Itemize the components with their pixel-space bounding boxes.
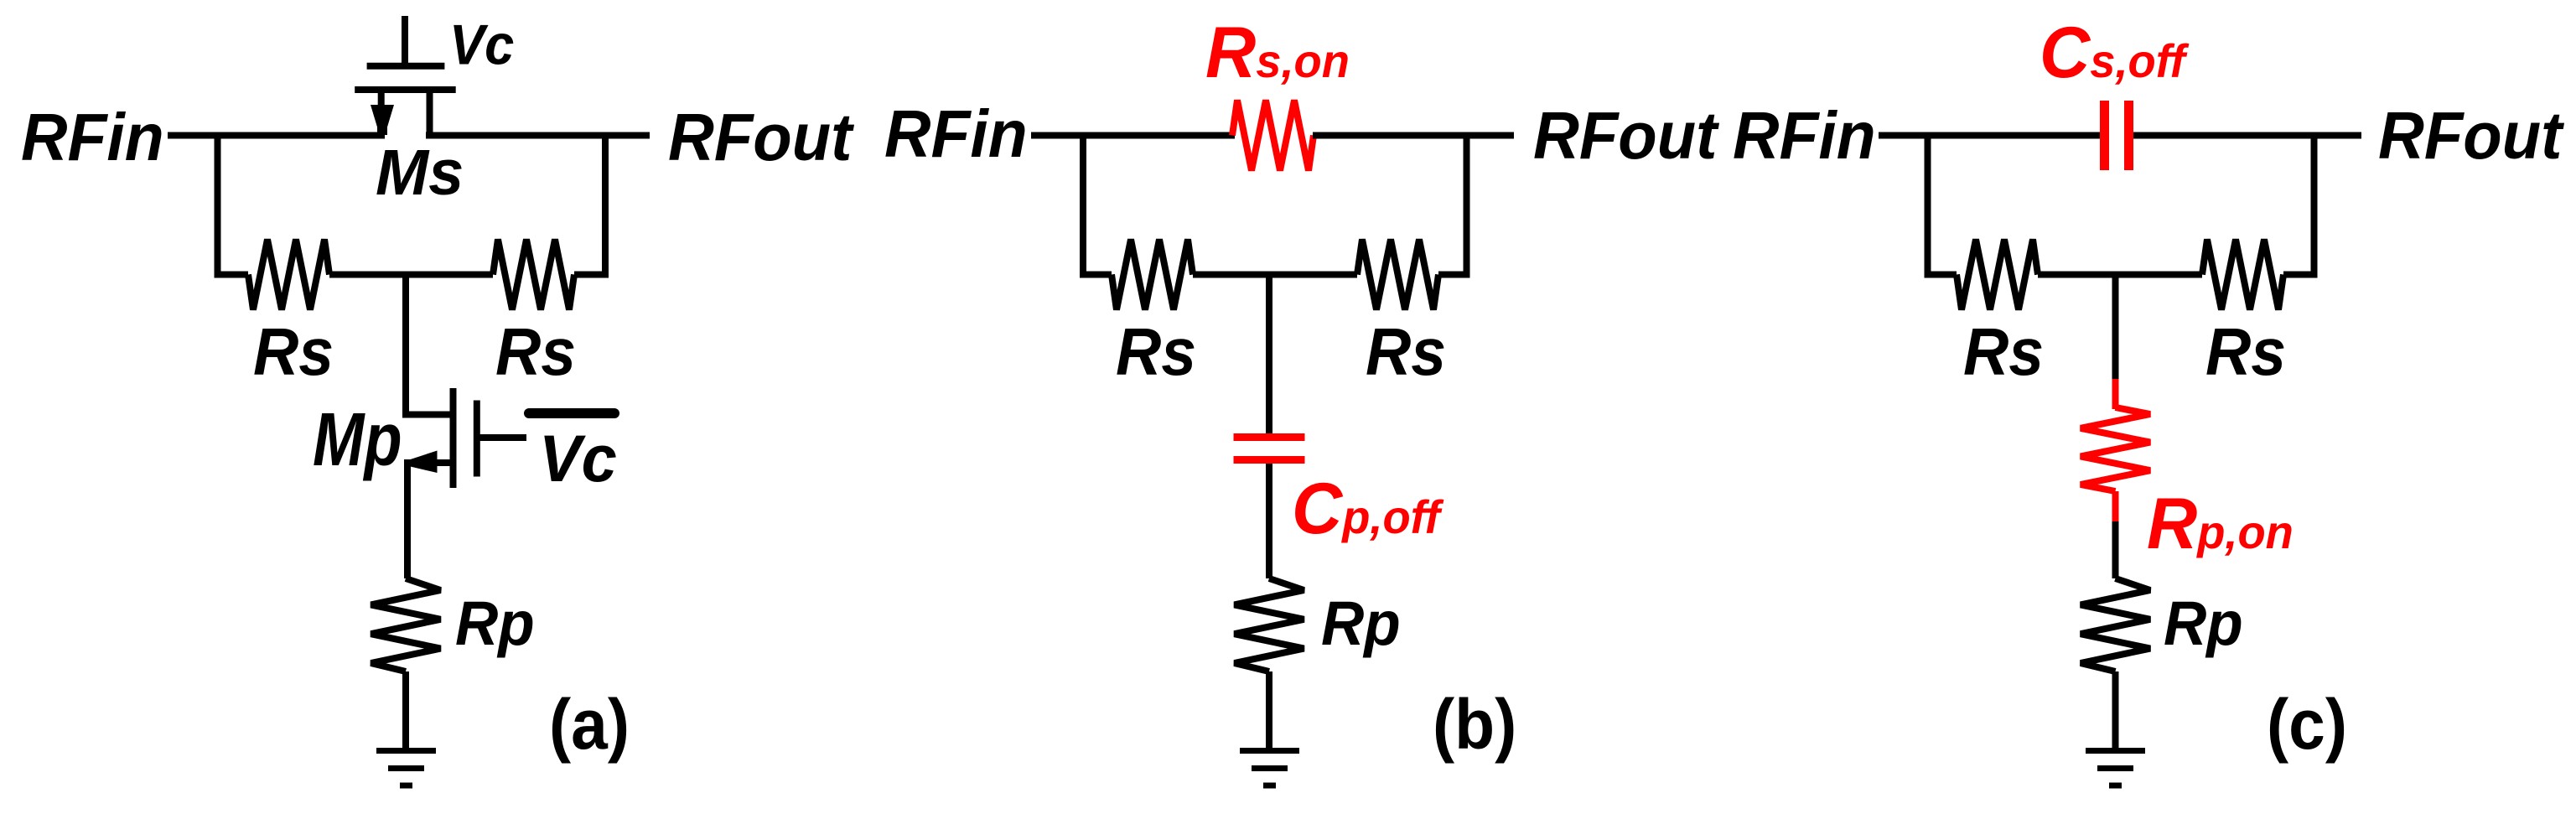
wire red lead below Rp,on (c) (2112, 491, 2119, 523)
wire row left segment (c) (1925, 272, 1957, 278)
svg-text:RFout: RFout (2378, 97, 2564, 173)
svg-text:Cp,off: Cp,off (1292, 468, 1443, 548)
svg-text:Cs,off: Cs,off (2040, 12, 2189, 92)
wire red lead into Rp,on (c) (2112, 379, 2119, 409)
wire row middle segment (c) (2038, 272, 2202, 278)
svg-text:Vc: Vc (449, 13, 514, 76)
svg-text:Rs: Rs (253, 315, 334, 390)
wire RFin to Cs,off (c) (1879, 132, 2100, 139)
resistor Rs left (c) (1957, 240, 2038, 310)
wire Rs,on to RFout (b) (1313, 132, 1514, 139)
ground (a) (376, 751, 436, 786)
svg-text:(c): (c) (2267, 686, 2347, 765)
svg-text:Rp: Rp (2164, 589, 2243, 659)
wire row right segment (c) (2283, 272, 2318, 278)
wire left branch drop (c) (1925, 136, 1931, 275)
wire row middle segment (b) (1193, 272, 1357, 278)
resistor Rp (a) (371, 578, 441, 671)
wire left branch drop (a) (215, 136, 221, 275)
svg-text:Rs: Rs (1116, 315, 1196, 390)
capacitor Cs,off (red, c) (2105, 101, 2129, 170)
resistor Rs left (a) (248, 240, 329, 310)
ground (b) (1240, 751, 1299, 786)
wire right branch drop (c) (2311, 136, 2318, 275)
resistor Rs right (a) (493, 240, 574, 310)
svg-text:RFin: RFin (884, 96, 1028, 172)
resistor Rs,on (red, b) (1232, 101, 1314, 171)
svg-text:Rs: Rs (1366, 315, 1446, 390)
transistor Ms (355, 16, 456, 135)
wire Cs,off to RFout (c) (2133, 132, 2361, 139)
wire Mp source to Rp (a) (404, 459, 411, 578)
svg-text:(a): (a) (549, 686, 630, 765)
wire RFin to Rs,on (b) (1031, 132, 1235, 139)
wire left branch drop (b) (1080, 136, 1086, 275)
svg-text:RFout: RFout (1533, 97, 1719, 173)
svg-text:Rs,on: Rs,on (1205, 12, 1350, 92)
wire Rp to ground (c) (2112, 671, 2119, 752)
svg-text:Rs: Rs (1963, 315, 2044, 390)
wire center tap to Mp drain (a) (406, 272, 450, 415)
resistor Rs right (c) (2202, 240, 2283, 310)
wire row middle segment (a) (329, 272, 493, 278)
resistor Rp (c) (2081, 578, 2150, 671)
svg-text:Rp: Rp (1321, 589, 1401, 659)
wire row left segment (b) (1080, 272, 1112, 278)
resistor Rs left (b) (1112, 240, 1193, 310)
capacitor Cp,off (red, b) (1234, 438, 1305, 460)
wire row left segment (a) (215, 272, 249, 278)
wire Rp to ground (a) (402, 671, 409, 752)
svg-text:RFin: RFin (21, 100, 164, 175)
svg-text:Ms: Ms (376, 137, 464, 209)
svg-text:Rs: Rs (2205, 315, 2286, 390)
svg-text:Mp: Mp (313, 398, 402, 482)
wire Ms drain to RFout (a) (426, 132, 650, 139)
svg-text:RFout: RFout (668, 99, 854, 174)
resistor Rs right (b) (1357, 240, 1438, 310)
label Vc-bar overline (Mp gate) (529, 408, 614, 418)
svg-text:Rp,on: Rp,on (2147, 483, 2294, 563)
ground (c) (2086, 751, 2145, 786)
wire Rp,on to Rp (c) (2112, 521, 2119, 578)
wire Cp,off to Rp (b) (1266, 464, 1272, 578)
svg-text:Vc: Vc (539, 423, 617, 496)
resistor Rp (b) (1235, 578, 1304, 671)
wire row right segment (b) (1438, 272, 1470, 278)
wire center tap to Cp,off (b) (1266, 272, 1272, 434)
svg-text:Rp: Rp (455, 589, 535, 659)
resistor Rp,on (red, c) (2081, 407, 2150, 491)
transistor Mp (407, 388, 526, 488)
wire row right segment (a) (574, 272, 609, 278)
wire Rp to ground (b) (1266, 671, 1272, 752)
svg-text:(b): (b) (1433, 686, 1516, 765)
wire center tap black (c) (2112, 272, 2119, 381)
svg-text:Rs: Rs (495, 315, 576, 390)
wire right branch drop (a) (602, 136, 609, 275)
wire RFin to Ms source (a) (168, 132, 385, 139)
wire right branch drop (b) (1464, 136, 1470, 275)
svg-text:RFin: RFin (1733, 98, 1876, 174)
